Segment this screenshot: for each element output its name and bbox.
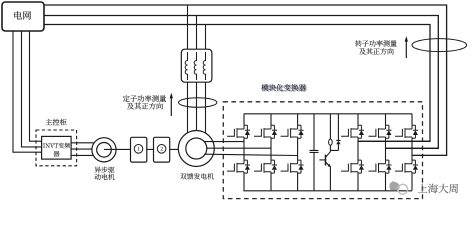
transformer (3-phase choke) box [181, 49, 212, 82]
IGBT switch VT6 (rotor-side leg 3 bottom) [281, 160, 304, 173]
generator G1 双馈发电机 outer circle [178, 131, 214, 167]
wire stator tap 3 [205, 25, 207, 134]
wire INVT to motor 3 [71, 154, 93, 156]
inductor coil 3 [203, 52, 205, 80]
wire grid-side phase 3 midpoint [412, 154, 447, 156]
wire DC+ top rail [244, 113, 412, 115]
wire leg x=385.5 segments [385, 114, 387, 191]
IGBT switch VT7 (grid-side leg 1 top) [341, 125, 364, 138]
IGBT switch VT4 (rotor-side leg 1 bottom) [227, 160, 250, 173]
stator current-measurement ellipse [179, 98, 217, 108]
IGBT switch VT3 (rotor-side leg 3 top) [281, 125, 304, 138]
wire grid phase A: top line to right-side converter leg R3 [44, 5, 447, 155]
label 转子功率测量 [355, 40, 396, 46]
label 异步驱 [95, 167, 115, 173]
wire rotor phase 2 [207, 147, 271, 149]
wire leg x=297.6 segments [297, 114, 299, 191]
sensor 2 circle [157, 145, 166, 154]
wire grid to INVT phase 1 [13, 31, 42, 152]
sensor 1 digit [138, 147, 140, 151]
wire grid phase B: middle line to converter leg R2 [44, 16, 438, 149]
wire grid phase C: bottom line to converter leg R1 [44, 25, 430, 142]
label 模块化变换器 (highlighted) [263, 85, 308, 92]
IGBT switch VT5 (rotor-side leg 2 bottom) [254, 160, 277, 173]
inductor coil 1 [185, 52, 187, 80]
IGBT switch VT10 (grid-side leg 1 bottom) [341, 160, 364, 173]
IGBT switch VT8 (grid-side leg 2 top) [369, 125, 392, 138]
wire shaft motor to sensor1 [104, 148, 131, 150]
wire leg x=271 segments [270, 114, 272, 191]
wire stator tap 1 [187, 5, 189, 133]
INVT inverter U1 box [42, 136, 72, 159]
label 器 [53, 151, 59, 157]
sensor 2 digit [161, 147, 163, 151]
wire INVT to motor 1 [71, 142, 94, 144]
IGBT switch VT9 (grid-side leg 3 top) [395, 125, 418, 138]
label 双馈发电机 [180, 173, 214, 179]
diode D1 across brake resistor [330, 114, 340, 151]
motor M1 inner circle [97, 143, 112, 158]
watermark text 上海大周 [418, 184, 458, 194]
inductor coil 2 [194, 52, 196, 80]
transistor Q1 chopper BJT [325, 155, 327, 166]
wire rotor phase 1 [205, 141, 244, 143]
IGBT switch VT1 (rotor-side leg 1 top) [227, 125, 250, 138]
wire grid to INVT phase 2 [22, 31, 42, 147]
wire grid to INVT phase 3 [30, 31, 42, 141]
rotor current-measurement ellipse [412, 39, 467, 52]
wire rotor phase 3 [204, 154, 297, 155]
wire leg x=358 segments [357, 114, 359, 191]
wire shaft sensor1 to sensor2 [147, 148, 154, 150]
label 主控柜 [46, 119, 67, 126]
node 电网 (power grid) box [2, 2, 44, 31]
IGBT switch VT11 (grid-side leg 2 bottom) [369, 160, 392, 173]
label 及其正方向(rotor) [359, 48, 393, 54]
wire leg x=244 segments [243, 114, 245, 191]
label 及其正方向 [127, 103, 163, 110]
wire stator tap 2 [196, 16, 198, 131]
capacitor C1 DC link [310, 114, 319, 191]
arrow stator positive direction [170, 98, 172, 116]
label 定子功率测量 [123, 95, 166, 102]
label 动电机 [95, 174, 115, 180]
wire shaft sensor2 to generator [170, 148, 197, 150]
wire DC- bottom rail [243, 190, 412, 192]
dashed box 模块化变换器 (modular converter) [223, 102, 422, 199]
sensor box 2 [154, 137, 170, 162]
wire leg x=412 segments [411, 114, 413, 191]
wire grid-side phase 1 midpoint [358, 140, 430, 142]
arrow rotor positive direction [405, 41, 407, 58]
resistor R1 brake (oval) [329, 114, 331, 139]
label 电网 [14, 11, 31, 19]
motor M1 异步驱动电机 outer circle [92, 138, 116, 162]
wire grid-side phase 2 midpoint [386, 147, 439, 149]
watermark icon [389, 181, 399, 190]
sensor 1 circle [134, 145, 143, 154]
sensor box 1 [131, 137, 147, 162]
label INVT变频 [43, 143, 70, 149]
IGBT switch VT12 (grid-side leg 3 bottom) [395, 160, 418, 173]
IGBT switch VT2 (rotor-side leg 2 top) [254, 125, 277, 138]
generator G1 inner circle [186, 138, 207, 159]
wire INVT to motor 2 [71, 148, 92, 150]
dashed box 主控柜 (main control cabinet) [36, 130, 77, 166]
